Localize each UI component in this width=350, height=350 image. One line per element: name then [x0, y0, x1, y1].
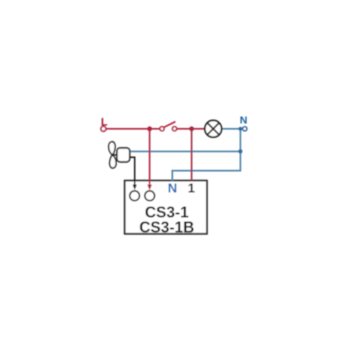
wire black from motor to box terminal — [130, 157, 135, 185]
arrow black into terminal — [133, 185, 137, 190]
node blue junction — [238, 149, 242, 153]
node blue junction on lamp wire — [239, 127, 243, 131]
svg-text:L: L — [101, 116, 108, 128]
node red junction 2 — [189, 126, 194, 131]
terminal N (open circle) — [243, 127, 247, 131]
wire dark red vertical to box pin 1 — [191, 129, 193, 181]
fan M motor body — [117, 148, 130, 162]
terminal L (open circle) — [101, 126, 106, 131]
node red junction 1 — [147, 126, 152, 131]
fan M propeller — [109, 142, 116, 168]
svg-text:N: N — [240, 115, 248, 127]
terminal circle b in box — [145, 191, 155, 201]
wire red from switch to lamp — [177, 128, 205, 130]
wire blue horizontal from motor to right vertical — [130, 150, 241, 152]
box CS3-1 outline — [125, 181, 207, 234]
wire red L horizontal — [106, 128, 160, 130]
wire red vertical to box terminal — [149, 129, 151, 186]
switch S contact b — [172, 127, 176, 131]
wire blue N-path: vertical from N terminal, corner, down into box — [172, 129, 240, 182]
svg-text:1: 1 — [188, 181, 195, 196]
svg-text:CS3-1B: CS3-1B — [139, 219, 194, 236]
switch S contact a — [160, 127, 164, 131]
wire fan shaft — [113, 154, 117, 156]
wire blue from lamp to N terminal — [222, 128, 243, 130]
lamp E1 (circle with X) — [205, 120, 222, 137]
svg-text:N: N — [168, 181, 177, 196]
switch S blade — [164, 122, 176, 128]
terminal circle a in box — [130, 191, 140, 201]
arrow red into terminal — [147, 185, 152, 191]
